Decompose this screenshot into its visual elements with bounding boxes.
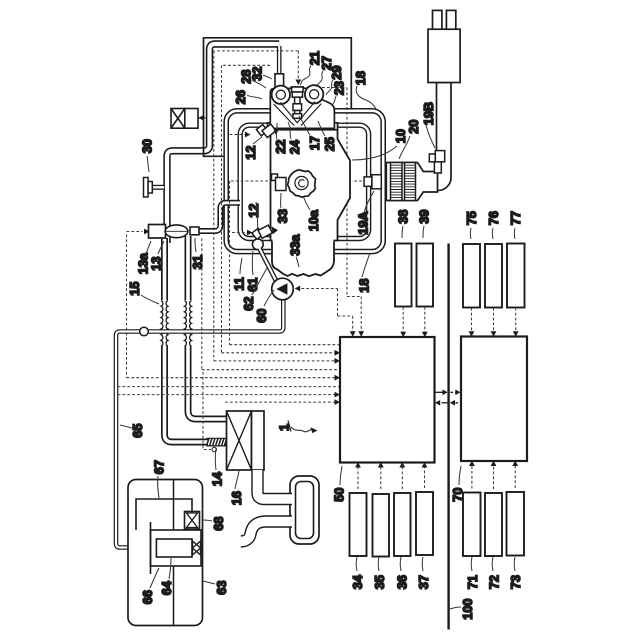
svg-text:19A: 19A xyxy=(356,211,371,234)
wire fuel line 65 from pump 60 down and around to fuel tank 63 xyxy=(116,299,283,548)
catalytic converter 20 shell xyxy=(386,163,437,201)
actuator box 71 xyxy=(463,493,481,557)
actuator box 37 xyxy=(416,492,433,555)
fuel pump 64 xyxy=(156,539,192,557)
svg-text:20: 20 xyxy=(406,119,421,133)
boundary box around engine top assembly xyxy=(204,38,352,157)
boost sensor 19A on exhaust loop xyxy=(364,175,381,189)
wire hose segment above bellows of pipe 15 second branch xyxy=(185,236,192,302)
svg-text:75: 75 xyxy=(464,211,479,225)
pressure sensor 30 flange xyxy=(144,178,165,198)
actuator box 72 xyxy=(485,493,502,556)
svg-text:63: 63 xyxy=(214,580,229,594)
svg-text:19B: 19B xyxy=(421,102,436,125)
wire duct from box 16 into snorkel xyxy=(258,470,293,499)
svg-text:35: 35 xyxy=(372,575,387,589)
relief valve 68 xyxy=(185,512,200,530)
svg-text:32: 32 xyxy=(250,66,265,80)
sensor box 75 xyxy=(463,244,480,308)
svg-text:15: 15 xyxy=(127,281,142,295)
svg-text:70: 70 xyxy=(450,487,465,501)
corrugated bellows of hose 15 xyxy=(159,300,171,346)
high pressure fuel pump 60 xyxy=(272,278,294,300)
catalyst brick 1 with hatching xyxy=(391,163,403,201)
svg-text:30: 30 xyxy=(140,139,155,153)
exhaust gas sensor 19B on outlet pipe xyxy=(429,151,444,173)
svg-text:23: 23 xyxy=(332,81,347,95)
ECU box 50 xyxy=(340,337,435,463)
venturi 13 xyxy=(165,225,188,238)
sensor box 76 xyxy=(485,244,502,308)
node terminal circle at louver control xyxy=(212,447,216,451)
air cleaner box 16 with filter element xyxy=(227,411,265,470)
svg-text:76: 76 xyxy=(486,211,501,225)
svg-text:18: 18 xyxy=(357,278,372,292)
svg-text:13: 13 xyxy=(149,256,164,270)
tail pipe 1 xyxy=(433,10,442,29)
svg-text:14: 14 xyxy=(210,471,225,486)
wire high pressure fuel pipe 62 xyxy=(260,249,279,286)
svg-text:16: 16 xyxy=(229,491,244,505)
EGR valve with actuator (X box) xyxy=(171,109,206,129)
sub tank 66 outline xyxy=(151,530,202,566)
fuel damper 61 xyxy=(252,239,263,250)
svg-text:65: 65 xyxy=(130,423,145,437)
corrugated bellows of second hose xyxy=(182,300,194,346)
wire intake pipe from air cleaner up over to engine top xyxy=(167,44,279,243)
valve train 23 left xyxy=(274,102,298,125)
node tank internal divider xyxy=(173,480,175,626)
intake port box 32 xyxy=(275,74,284,89)
wire arrowheads for sensor and actuator box lines xyxy=(355,331,518,467)
svg-text:25: 25 xyxy=(322,137,337,151)
wire dashed arrowheads into ECU 50 and components xyxy=(144,80,364,406)
sensor box 39 xyxy=(417,244,434,307)
svg-text:33: 33 xyxy=(275,209,290,223)
svg-text:12: 12 xyxy=(243,145,258,159)
actuator box 36 xyxy=(394,493,411,556)
tail pipe 2 xyxy=(446,10,455,29)
exhaust outlet pipe with elbow up to muffler xyxy=(423,83,451,191)
wire pipe from sensor box 31 into intake loop xyxy=(198,203,240,231)
svg-text:33a: 33a xyxy=(288,234,303,256)
svg-text:10a: 10a xyxy=(306,209,321,231)
svg-text:39: 39 xyxy=(417,209,432,223)
svg-text:18: 18 xyxy=(353,71,368,85)
wire bus exchange arrows between ECU 50 and 70 xyxy=(435,390,462,406)
knock sensor 33 xyxy=(272,174,287,191)
wire stub into port 32 xyxy=(277,46,282,74)
valve train 29 right xyxy=(298,102,322,126)
port injector 12 upper xyxy=(256,124,279,138)
oil pan 33a with scalloped bottom xyxy=(272,241,334,277)
node reference numeral labels (rotated) xyxy=(127,51,523,620)
svg-text:31: 31 xyxy=(190,255,205,269)
muffler box xyxy=(428,29,460,82)
node junction circle on fuel line xyxy=(140,327,149,336)
fuel tank 63 xyxy=(128,480,203,626)
wire dashed lines from sensor boxes 38 39 into ECU 50 xyxy=(358,307,516,489)
svg-text:12: 12 xyxy=(246,203,261,217)
intake air duct snorkel outer shell xyxy=(290,476,319,544)
air flow meter box 13a xyxy=(149,225,166,239)
ECU box 70 xyxy=(461,337,527,462)
intake cam sprocket 26 xyxy=(272,86,290,104)
actuator box 34 xyxy=(350,493,367,556)
wire lower branch pipe to air filter box 16 upper inlet xyxy=(188,344,227,419)
sensor box 77 xyxy=(507,244,525,308)
fuel injector 21 center stack xyxy=(292,87,304,118)
exhaust loop pipe 18 (outer rounded rectangle around engine) xyxy=(226,111,383,252)
sensor box 31 xyxy=(190,227,199,235)
svg-text:73: 73 xyxy=(508,575,523,589)
svg-text:24: 24 xyxy=(287,139,302,154)
sensor box 38 xyxy=(395,244,412,307)
engine block 10 xyxy=(271,125,351,241)
svg-text:34: 34 xyxy=(350,574,365,589)
node figure number 1 with arrow xyxy=(277,421,318,434)
wire snorkel lower inlet duct xyxy=(240,522,292,548)
wire intake hose 15 upper segment above bellows xyxy=(161,238,168,302)
crankshaft 10a wavy circle xyxy=(288,170,316,197)
svg-text:100: 100 xyxy=(460,598,475,619)
svg-text:66: 66 xyxy=(140,590,155,604)
svg-text:36: 36 xyxy=(395,575,410,589)
svg-text:67: 67 xyxy=(152,460,167,474)
catalyst brick 2 with hatching xyxy=(405,163,416,201)
exhaust cam sprocket 27 xyxy=(305,85,323,103)
svg-text:60: 60 xyxy=(254,308,269,322)
valve cover housing xyxy=(270,87,334,128)
svg-text:38: 38 xyxy=(396,209,411,223)
svg-text:17: 17 xyxy=(307,136,322,150)
svg-text:64: 64 xyxy=(159,580,174,595)
svg-text:29: 29 xyxy=(329,65,344,79)
actuator box 35 xyxy=(373,494,390,557)
wire dashed signal lines bundle to ECU 50 xyxy=(118,51,363,450)
svg-text:77: 77 xyxy=(508,211,523,225)
svg-text:26: 26 xyxy=(233,90,248,104)
svg-text:71: 71 xyxy=(465,575,480,589)
wire leader squiggles from labels to parts xyxy=(120,66,515,609)
louver grille 14 on intake duct xyxy=(207,438,228,446)
communication bus 100 xyxy=(447,244,449,630)
cylinder head xyxy=(268,123,338,130)
svg-text:22: 22 xyxy=(273,139,288,153)
svg-text:37: 37 xyxy=(416,575,431,589)
intake manifold loop pipe 11 (inner rounded rectangle) xyxy=(240,125,368,238)
wire fuel pump piping 67 inside tank xyxy=(136,499,192,548)
svg-text:68: 68 xyxy=(211,516,226,530)
valve at pump outlet xyxy=(193,541,201,555)
svg-text:72: 72 xyxy=(487,575,502,589)
svg-text:50: 50 xyxy=(332,487,347,501)
direct injector 12 lower xyxy=(252,225,278,239)
actuator box 73 xyxy=(507,492,525,556)
wire intake hose 15 lower run to louver 14 and box 16 xyxy=(165,344,228,442)
